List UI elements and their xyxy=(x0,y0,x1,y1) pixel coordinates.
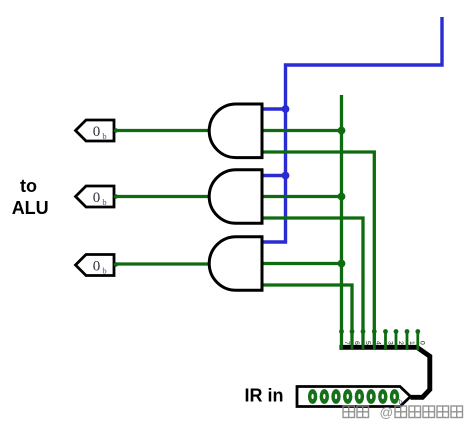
svg-text:b: b xyxy=(102,266,106,276)
pin IR value digits 00000000 xyxy=(308,389,399,404)
wire: green L from AND3 bottom input to splitter bit5 xyxy=(262,285,352,347)
svg-text:0: 0 xyxy=(419,341,426,345)
wire: green branch to AND1 middle input xyxy=(262,129,342,132)
probe P2 xyxy=(76,186,119,207)
node: blue junction at AND2 top input xyxy=(282,172,290,180)
input pin IR in (8-bit) xyxy=(297,387,411,407)
svg-text:@: @ xyxy=(380,405,394,420)
svg-text:1: 1 xyxy=(408,341,415,345)
probe P3 xyxy=(76,255,119,276)
node: green junction at AND3 middle xyxy=(338,260,346,268)
wire: green output AND1 to probe P1 xyxy=(114,129,209,132)
wire: green branch to AND3 middle input xyxy=(262,262,342,265)
wire: green L from AND1 bottom input to splitter bit7 xyxy=(262,152,374,347)
svg-text:b: b xyxy=(399,398,403,406)
svg-text:4: 4 xyxy=(375,341,382,345)
svg-text:0: 0 xyxy=(93,190,101,206)
wire: green vertical rail bit4 from splitter xyxy=(340,95,343,347)
node: green junction at AND2 middle xyxy=(338,193,346,201)
and-gate U3 xyxy=(209,237,262,291)
svg-text:5: 5 xyxy=(364,341,371,345)
label: to ALU xyxy=(12,176,49,218)
wire: blue branch to AND1 top input xyxy=(262,107,286,110)
wire: green output AND2 to probe P2 xyxy=(114,195,209,198)
wire: blue branch to AND2 top input xyxy=(262,174,286,177)
splitter SP1 legs xyxy=(342,332,418,351)
svg-text:2: 2 xyxy=(397,341,404,345)
svg-text:to: to xyxy=(20,176,37,196)
node: green junction at AND1 middle xyxy=(338,127,346,135)
bus wire: splitter spine and bus to IR pin xyxy=(340,347,430,397)
svg-text:6: 6 xyxy=(353,341,360,345)
wire: green output AND3 to probe P3 xyxy=(114,262,209,265)
wire: blue clock net main run xyxy=(262,17,442,242)
node: blue junction at AND1 top input xyxy=(282,105,290,113)
wire: green branch to AND2 middle input xyxy=(262,195,342,198)
and-gate U1 xyxy=(209,104,262,158)
and-gate U2 xyxy=(209,170,262,224)
svg-text:ALU: ALU xyxy=(12,198,49,218)
splitter SP1 bit index labels 7..0 xyxy=(343,341,426,345)
svg-text:7: 7 xyxy=(343,341,350,345)
probe P1 xyxy=(76,120,119,141)
wire: green L from AND2 bottom input to splitter bit6 xyxy=(262,218,363,347)
svg-text:b: b xyxy=(102,131,106,141)
svg-text:IR in: IR in xyxy=(245,386,284,406)
svg-text:b: b xyxy=(102,197,106,207)
svg-text:0: 0 xyxy=(93,258,101,274)
svg-text:3: 3 xyxy=(386,341,393,345)
svg-text:0: 0 xyxy=(93,124,101,140)
watermark 知乎 @电子创造力 (drawn as glyph blocks) xyxy=(343,406,463,418)
splitter SP1 leg end dots xyxy=(339,329,420,334)
